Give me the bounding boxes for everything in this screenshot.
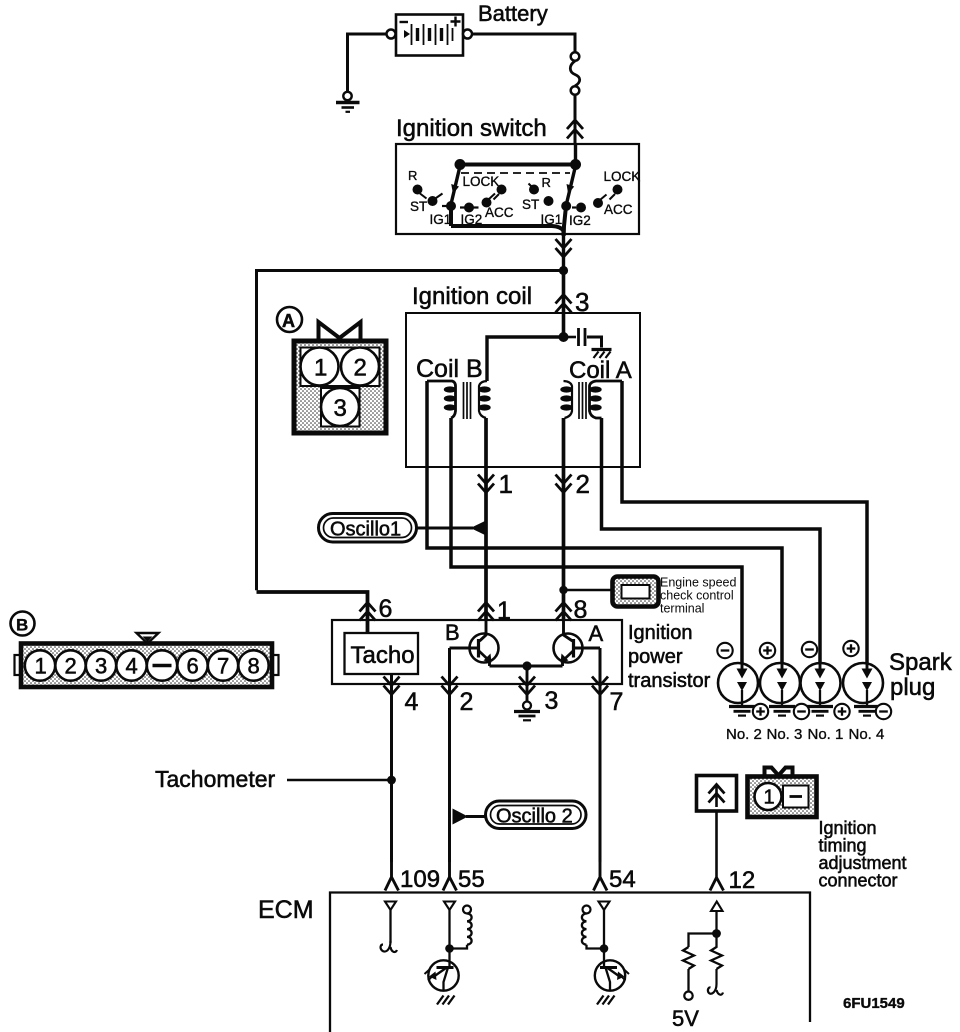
wire fusible link to ignition switch bbox=[574, 95, 577, 144]
svg-text:4: 4 bbox=[126, 654, 138, 679]
svg-text:6: 6 bbox=[187, 654, 199, 679]
contact R right bbox=[529, 184, 540, 195]
wire rotor arm right bbox=[566, 166, 575, 205]
connector A pin 1 bbox=[301, 348, 339, 386]
contact ACC left bbox=[482, 194, 496, 208]
terminal fork 12 bbox=[710, 878, 724, 891]
transistor ECM Q2 bbox=[595, 949, 629, 991]
ground G2 (transistor) bbox=[514, 702, 540, 721]
wire terminal 3 ground bbox=[526, 666, 529, 702]
ground G1 (battery negative) bbox=[336, 92, 360, 112]
svg-text:connector: connector bbox=[819, 871, 898, 891]
svg-text:ACC: ACC bbox=[485, 205, 514, 220]
coil A primary winding bbox=[560, 381, 572, 418]
arrow chevrons terminal 3 bbox=[519, 677, 535, 695]
svg-text:6: 6 bbox=[379, 595, 393, 623]
node tachometer tap bbox=[387, 776, 396, 785]
coil B core bbox=[464, 382, 471, 419]
arrow chevrons transistor pin 1 bbox=[478, 603, 494, 621]
contact LOCK left bbox=[494, 185, 507, 200]
arrow chevrons transistor pin 8 bbox=[556, 603, 572, 621]
ECM output triangle 12 bbox=[711, 902, 723, 912]
transistor Q-A bbox=[554, 620, 601, 666]
contact ACC right bbox=[593, 195, 607, 209]
wire coil B secondary top to spark plug No.3 bbox=[427, 381, 782, 668]
arrow chevrons into ignition switch bbox=[567, 120, 583, 139]
svg-text:LOCK: LOCK bbox=[604, 169, 641, 184]
svg-text:transistor: transistor bbox=[628, 670, 711, 692]
oscilloscope tap Oscillo1 bbox=[319, 514, 417, 543]
svg-text:B: B bbox=[16, 616, 28, 635]
tacho unit box bbox=[345, 633, 419, 674]
svg-text:B: B bbox=[445, 620, 460, 645]
svg-text:8: 8 bbox=[248, 654, 260, 679]
polarity minus above No.1 bbox=[802, 642, 817, 657]
svg-text:No. 3: No. 3 bbox=[767, 726, 803, 743]
ignition switch SW1 box bbox=[396, 144, 639, 234]
svg-text:check control: check control bbox=[660, 589, 734, 603]
connector B pin 3 bbox=[86, 650, 116, 680]
wire to 5V resistor bbox=[689, 934, 717, 948]
polarity minus below No.3 bbox=[794, 704, 809, 719]
ignition timing connector key tab bbox=[765, 768, 793, 778]
wire coil to node 55 bbox=[453, 945, 467, 949]
terminal fork 55 bbox=[443, 862, 457, 891]
svg-text:ACC: ACC bbox=[604, 202, 633, 217]
connector B pin 7 bbox=[208, 650, 238, 680]
wire tachometer lead bbox=[287, 779, 392, 782]
wire long branch to tacho terminal 6 bbox=[257, 271, 564, 591]
wire to coil B primary bbox=[487, 337, 564, 381]
oscilloscope tap Oscillo2 probe bbox=[453, 809, 469, 825]
svg-text:5V: 5V bbox=[672, 1006, 699, 1031]
svg-text:7: 7 bbox=[610, 688, 624, 716]
oscilloscope Oscillo2 bbox=[486, 801, 587, 829]
hook wire end 12 bbox=[708, 969, 723, 995]
svg-text:Battery: Battery bbox=[478, 1, 548, 26]
polarity plus below No.1 bbox=[834, 704, 849, 719]
ECM input triangle 55 bbox=[444, 902, 455, 911]
polarity minus below No.4 bbox=[876, 704, 891, 719]
wire IG1 left to exit bbox=[451, 205, 564, 236]
node divider 12 bbox=[712, 929, 721, 938]
spark plug No.4 bbox=[843, 663, 883, 716]
wire coil B secondary bottom to spark plug No.2 bbox=[451, 418, 742, 668]
engine speed check control terminal connector bbox=[613, 577, 659, 607]
svg-text:1: 1 bbox=[35, 654, 47, 679]
5V terminal circle bbox=[684, 992, 692, 1000]
arrow chevrons below coil pin 1 bbox=[478, 475, 494, 493]
svg-text:3: 3 bbox=[545, 687, 559, 715]
svg-text:1: 1 bbox=[314, 355, 327, 382]
wire ECM 54 to base node bbox=[603, 910, 605, 949]
connector A circled label bbox=[277, 307, 302, 332]
svg-text:No. 4: No. 4 bbox=[849, 726, 885, 743]
svg-text:Tachometer: Tachometer bbox=[155, 766, 276, 792]
svg-text:R: R bbox=[542, 175, 551, 190]
arrow chevrons below coil pin 2 bbox=[556, 475, 572, 493]
svg-text:54: 54 bbox=[609, 866, 636, 893]
connector B pin 8 bbox=[238, 650, 268, 680]
svg-text:12: 12 bbox=[729, 867, 756, 894]
svg-text:2: 2 bbox=[576, 469, 590, 499]
svg-text:Coil B: Coil B bbox=[416, 355, 483, 383]
node coil feed bbox=[559, 332, 569, 342]
label Spark plug bbox=[889, 649, 953, 701]
svg-text:109: 109 bbox=[400, 866, 440, 893]
connector A pin 3 bbox=[321, 388, 360, 427]
connector A body bbox=[294, 341, 386, 433]
pull-up terminal circle 55 bbox=[463, 906, 471, 914]
svg-text:4: 4 bbox=[405, 688, 419, 716]
wire emitter bus bbox=[490, 665, 563, 668]
svg-text:terminal: terminal bbox=[660, 602, 704, 616]
svg-text:Oscillo1: Oscillo1 bbox=[330, 519, 401, 541]
contact ST right bbox=[544, 196, 554, 206]
ignition timing adjustment terminal box bbox=[697, 776, 737, 812]
svg-text:3: 3 bbox=[334, 395, 347, 422]
wire resistor to 5V terminal bbox=[687, 969, 689, 992]
battery terminal circle left bbox=[387, 30, 396, 39]
spark plug No.1 bbox=[801, 663, 841, 716]
connector B pin 2 bbox=[55, 650, 85, 680]
fusible link FL1 bbox=[570, 52, 579, 95]
battery BAT1 bbox=[396, 15, 463, 56]
wire base A to terminal 7 bbox=[599, 648, 602, 862]
connector B pin 4 bbox=[116, 650, 146, 680]
svg-text:A: A bbox=[589, 621, 604, 646]
connector A key tab bbox=[319, 322, 361, 339]
wire base B to terminal 2 bbox=[448, 648, 451, 862]
wire ECM 109 stub bbox=[389, 910, 391, 943]
transistor ECM Q1 bbox=[425, 949, 459, 991]
coil B secondary winding bbox=[427, 381, 456, 418]
node emitter junction bbox=[522, 661, 531, 670]
connector B pointer bbox=[137, 633, 159, 644]
svg-text:ST: ST bbox=[410, 199, 427, 214]
ignition timing connector body bbox=[748, 777, 817, 818]
node bus left bbox=[455, 159, 466, 170]
connector B tab right bbox=[272, 655, 279, 675]
ECM input triangle 54 bbox=[599, 902, 610, 911]
svg-text:A: A bbox=[282, 311, 295, 331]
svg-text:2: 2 bbox=[65, 654, 77, 679]
contact LOCK right bbox=[610, 185, 623, 200]
svg-text:LOCK: LOCK bbox=[463, 174, 500, 189]
coil A secondary winding bbox=[589, 381, 622, 418]
resistor R1 (to 5V) bbox=[683, 947, 694, 969]
svg-text:No. 2: No. 2 bbox=[726, 726, 762, 743]
node base 54 bbox=[600, 944, 609, 953]
svg-text:Ignition: Ignition bbox=[628, 622, 693, 644]
spark plug No.2 bbox=[718, 663, 758, 716]
ignition power transistor box bbox=[332, 620, 622, 684]
wire switch output bbox=[562, 234, 565, 270]
contact IG1 right bbox=[561, 201, 571, 211]
polarity minus above No.2 bbox=[717, 643, 732, 658]
connector B pin 5 blank bbox=[147, 650, 177, 680]
wire battery positive to fusible link bbox=[472, 34, 575, 53]
arrow chevrons terminal 4 bbox=[384, 677, 400, 695]
arrow chevrons switch output bbox=[556, 239, 572, 257]
svg-text:power: power bbox=[628, 646, 683, 668]
ECM box bbox=[330, 893, 810, 1032]
arrow chevrons coil terminal 3 bbox=[556, 295, 572, 313]
wire Oscillo2 lead bbox=[466, 815, 486, 818]
label Ignition power transistor bbox=[628, 622, 711, 692]
spark plug No.3 bbox=[760, 663, 800, 716]
svg-text:No. 1: No. 1 bbox=[808, 726, 844, 743]
transistor Q-B bbox=[450, 620, 499, 666]
wire coil to node 54 bbox=[587, 945, 601, 949]
svg-text:IG2: IG2 bbox=[569, 213, 591, 228]
svg-text:2: 2 bbox=[460, 688, 474, 716]
polarity plus below No.2 bbox=[753, 704, 768, 719]
wire timing connector to ECM terminal 12 bbox=[715, 811, 718, 878]
ground chassis ECM Q1 bbox=[437, 996, 455, 1005]
terminal fork 54 bbox=[594, 862, 608, 891]
terminal fork 109 bbox=[385, 862, 399, 891]
wire coil A secondary top to spark plug No.4 bbox=[622, 381, 867, 668]
wire IG1 right down bbox=[564, 204, 567, 236]
connector B pin 6 bbox=[177, 650, 207, 680]
svg-text:ST: ST bbox=[522, 197, 539, 212]
wire ECM 55 to base node bbox=[448, 910, 450, 949]
connector B tab left bbox=[15, 655, 22, 675]
contact ST left bbox=[428, 194, 443, 207]
label Ignition timing adjustment connector bbox=[819, 818, 907, 891]
polarity plus above No.3 bbox=[760, 643, 775, 658]
wire main feed to ignition coil bbox=[562, 271, 566, 338]
wire ECM 12 to divider node bbox=[715, 911, 717, 934]
connector B pin 1 bbox=[25, 650, 55, 680]
capacitor C1 (noise) bbox=[564, 328, 602, 348]
inductor coil 55 bbox=[467, 914, 472, 945]
wire feed into switch bus bbox=[574, 144, 577, 164]
hook wire end 109 bbox=[381, 941, 397, 952]
svg-text:6FU1549: 6FU1549 bbox=[843, 995, 905, 1012]
svg-text:2: 2 bbox=[354, 355, 367, 382]
svg-text:Engine speed: Engine speed bbox=[660, 576, 737, 590]
dashed rotor line bbox=[461, 172, 570, 174]
svg-text:3: 3 bbox=[95, 654, 107, 679]
wire coil B primary to transistor terminal 1 bbox=[484, 418, 488, 620]
node base 55 bbox=[445, 944, 454, 953]
svg-text:R: R bbox=[408, 168, 417, 183]
svg-text:Spark: Spark bbox=[889, 649, 953, 676]
svg-text:ECM: ECM bbox=[258, 896, 314, 924]
battery terminal circle right bbox=[463, 30, 472, 39]
arrow chevrons terminal 2 bbox=[442, 677, 458, 695]
wire switch bus bbox=[460, 163, 576, 167]
connector B body bbox=[21, 644, 272, 688]
arrow chevrons terminal 6 bbox=[360, 603, 376, 621]
svg-text:7: 7 bbox=[217, 654, 229, 679]
svg-text:Oscillo 2: Oscillo 2 bbox=[496, 806, 573, 828]
coil B primary winding bbox=[478, 381, 490, 418]
node engine speed branch bbox=[559, 586, 567, 594]
wire coil A secondary bottom to spark plug No.1 bbox=[602, 418, 821, 668]
ground chassis (capacitor) bbox=[592, 350, 612, 359]
contact IG2 right bbox=[572, 203, 586, 213]
contact IG1 left bbox=[442, 201, 456, 211]
ignition coil box bbox=[406, 313, 640, 467]
wire to engine speed check terminal bbox=[564, 589, 614, 592]
node main split bbox=[559, 266, 568, 275]
connector B circled label bbox=[11, 612, 35, 636]
wire battery negative to ground bbox=[348, 34, 389, 92]
svg-text:plug: plug bbox=[890, 674, 935, 701]
wire rotor arm left bbox=[451, 166, 460, 205]
pull-up terminal circle 54 bbox=[583, 906, 591, 914]
resistor R2 (pull-down) bbox=[711, 934, 722, 970]
svg-text:IG1: IG1 bbox=[430, 212, 452, 227]
wire coil A primary to transistor terminal 8 bbox=[562, 418, 566, 620]
connector A pin 2 bbox=[341, 348, 379, 386]
svg-text:Ignition coil: Ignition coil bbox=[412, 283, 532, 310]
ground chassis ECM Q2 bbox=[597, 996, 615, 1005]
svg-text:Tacho: Tacho bbox=[351, 642, 415, 669]
contact IG2 left bbox=[460, 203, 479, 213]
wire Oscillo1 probe bbox=[417, 521, 487, 536]
ECM input triangle 109 bbox=[385, 902, 396, 911]
svg-text:IG1: IG1 bbox=[541, 212, 563, 227]
arrow chevrons terminal 7 bbox=[592, 677, 608, 695]
inductor coil 54 bbox=[582, 914, 587, 945]
wire tacho output terminal 4 bbox=[390, 674, 393, 862]
label Engine speed check control terminal bbox=[660, 576, 737, 616]
svg-text:1: 1 bbox=[499, 469, 513, 499]
svg-text:55: 55 bbox=[458, 866, 485, 893]
coil A core bbox=[579, 382, 586, 419]
node bus right bbox=[570, 159, 581, 170]
svg-text:Ignition switch: Ignition switch bbox=[396, 115, 547, 142]
contact R left bbox=[413, 185, 427, 199]
svg-text:1: 1 bbox=[764, 787, 775, 809]
polarity plus above No.4 bbox=[843, 641, 858, 656]
